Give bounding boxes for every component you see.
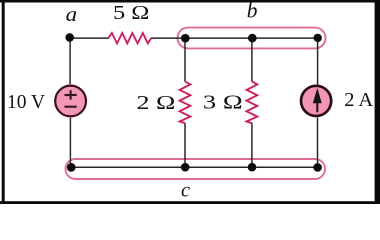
svg-text:c: c (181, 181, 190, 202)
svg-text:b: b (247, 0, 258, 22)
svg-text:a: a (66, 4, 78, 26)
svg-text:10 V: 10 V (7, 91, 45, 113)
svg-text:5 Ω: 5 Ω (113, 2, 149, 24)
svg-text:2 Ω: 2 Ω (137, 92, 176, 114)
svg-text:3 Ω: 3 Ω (203, 92, 243, 114)
svg-text:2 A: 2 A (344, 89, 373, 111)
